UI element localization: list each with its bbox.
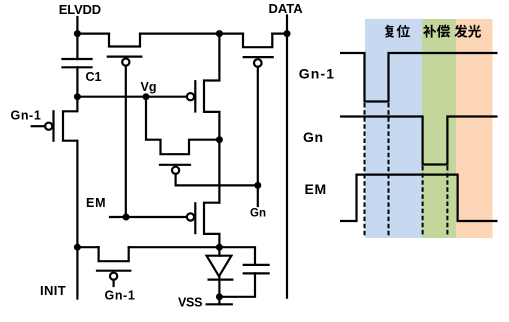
wire OLED cathode stub xyxy=(218,276,220,297)
node DATA junction xyxy=(284,30,291,37)
transistor T7 gate bar xyxy=(97,270,130,272)
transistor T3 gate bar xyxy=(160,164,190,166)
ground VSS terminal bar xyxy=(207,303,232,305)
svg-text:Gn-1: Gn-1 xyxy=(299,65,335,81)
svg-text:Gn: Gn xyxy=(250,208,266,220)
svg-text:C1: C1 xyxy=(86,70,102,84)
svg-text:INIT: INIT xyxy=(40,283,66,298)
transistor T4 gate bar xyxy=(194,203,196,233)
signal waveform Gn xyxy=(340,117,498,165)
wire T5 gate to Gn node xyxy=(257,67,259,186)
capacitor C2 bottom plate xyxy=(244,272,269,274)
wire cap C2 top branch xyxy=(219,247,255,265)
transistor T2 source-drain notch xyxy=(109,34,140,47)
node Vg-C1 junction xyxy=(74,93,81,100)
capacitor C1 bottom plate xyxy=(63,66,92,68)
transistor T5 gate bar xyxy=(244,56,273,58)
wire top rail middle segment xyxy=(140,32,243,34)
transistor T1 source-drain path xyxy=(63,97,77,248)
wire INIT line xyxy=(76,247,78,298)
node INIT junction xyxy=(74,244,81,251)
wire cap C2 bottom branch xyxy=(219,273,255,296)
wire T7 gate lead xyxy=(112,280,114,286)
wire EM line xyxy=(110,216,187,218)
wire bottom rail left segment xyxy=(77,246,98,248)
svg-text:VSS: VSS xyxy=(178,296,202,310)
transistor T5 source-drain notch xyxy=(243,34,272,48)
svg-text:EM: EM xyxy=(86,196,106,210)
signal waveform EM xyxy=(340,175,498,221)
transistor T1 gate bubble xyxy=(45,123,52,130)
transistor T4 source-drain path xyxy=(204,203,219,248)
wire T3 gate lead xyxy=(175,174,177,186)
capacitor C1 top plate xyxy=(63,58,92,60)
wire C1 top stub xyxy=(76,34,78,59)
wire DATA line xyxy=(286,16,288,298)
phase label reset (CJK paths) xyxy=(385,25,410,38)
dashed marker Gn-1 fall xyxy=(364,103,366,237)
transistor T4 gate bubble xyxy=(187,213,194,220)
node EM junction xyxy=(123,214,130,221)
svg-text:Gn-1: Gn-1 xyxy=(105,289,136,303)
node VSS junction xyxy=(216,293,223,300)
svg-text:Gn: Gn xyxy=(303,129,324,145)
signal waveform Gn-1 xyxy=(340,53,498,102)
diode D1 OLED anode stub xyxy=(218,247,220,256)
transistor T3 source-drain path xyxy=(146,97,219,155)
ground VSS terminal stub xyxy=(218,297,220,305)
node OLED anode junction xyxy=(216,244,223,251)
node ELVDD junction xyxy=(74,30,81,37)
diode D1 OLED cathode bar xyxy=(209,279,233,281)
transistor T7 source-drain notch xyxy=(99,247,129,261)
transistor T1 gate bar xyxy=(52,111,54,140)
diode D1 OLED triangle xyxy=(207,256,232,277)
transistor T6 gate bar xyxy=(194,81,196,111)
svg-text:Vg: Vg xyxy=(141,80,157,94)
timing phase band reset (blue) xyxy=(365,19,422,238)
wire top rail left segment xyxy=(77,32,109,34)
wire Gn stub xyxy=(257,185,259,206)
wire T1 gate lead xyxy=(32,125,45,127)
wire top rail right segment xyxy=(272,32,287,34)
dashed marker Gn rise xyxy=(446,166,448,237)
svg-text:EM: EM xyxy=(305,181,327,197)
wire T6 to T4 xyxy=(218,140,220,203)
node rail-T6 junction xyxy=(216,30,223,37)
phase label compensation (CJK paths) xyxy=(423,25,450,38)
wire Vg line xyxy=(77,96,186,98)
node Vg junction xyxy=(143,93,150,100)
transistor T2 gate bubble xyxy=(122,59,129,66)
svg-text:ELVDD: ELVDD xyxy=(59,2,101,17)
node T3-T6 junction xyxy=(216,136,223,143)
wire C1 bottom stub xyxy=(76,67,78,96)
wire T2 gate to EM node xyxy=(125,66,127,217)
transistor T6 source-drain path xyxy=(204,34,219,140)
transistor T2 gate bar xyxy=(108,55,142,57)
dashed marker Gn-1 rise xyxy=(388,103,390,237)
dashed marker Gn fall xyxy=(422,166,424,237)
transistor T7 gate bubble xyxy=(110,273,117,280)
wire bottom rail right segment xyxy=(129,246,220,248)
transistor T3 gate bubble xyxy=(172,167,179,174)
timing phase band compensation (green) xyxy=(422,19,456,238)
timing phase band emission (orange) xyxy=(456,19,493,238)
svg-text:Gn-1: Gn-1 xyxy=(11,109,42,123)
wire ELVDD stub xyxy=(76,17,78,34)
node Gn junction xyxy=(254,182,261,189)
phase label emission (CJK paths) xyxy=(454,25,481,38)
svg-text:DATA: DATA xyxy=(269,1,304,16)
capacitor C2 top plate xyxy=(244,264,269,266)
transistor T6 gate bubble xyxy=(187,93,194,100)
wire Gn line xyxy=(176,184,258,186)
transistor T5 gate bubble xyxy=(254,59,262,67)
